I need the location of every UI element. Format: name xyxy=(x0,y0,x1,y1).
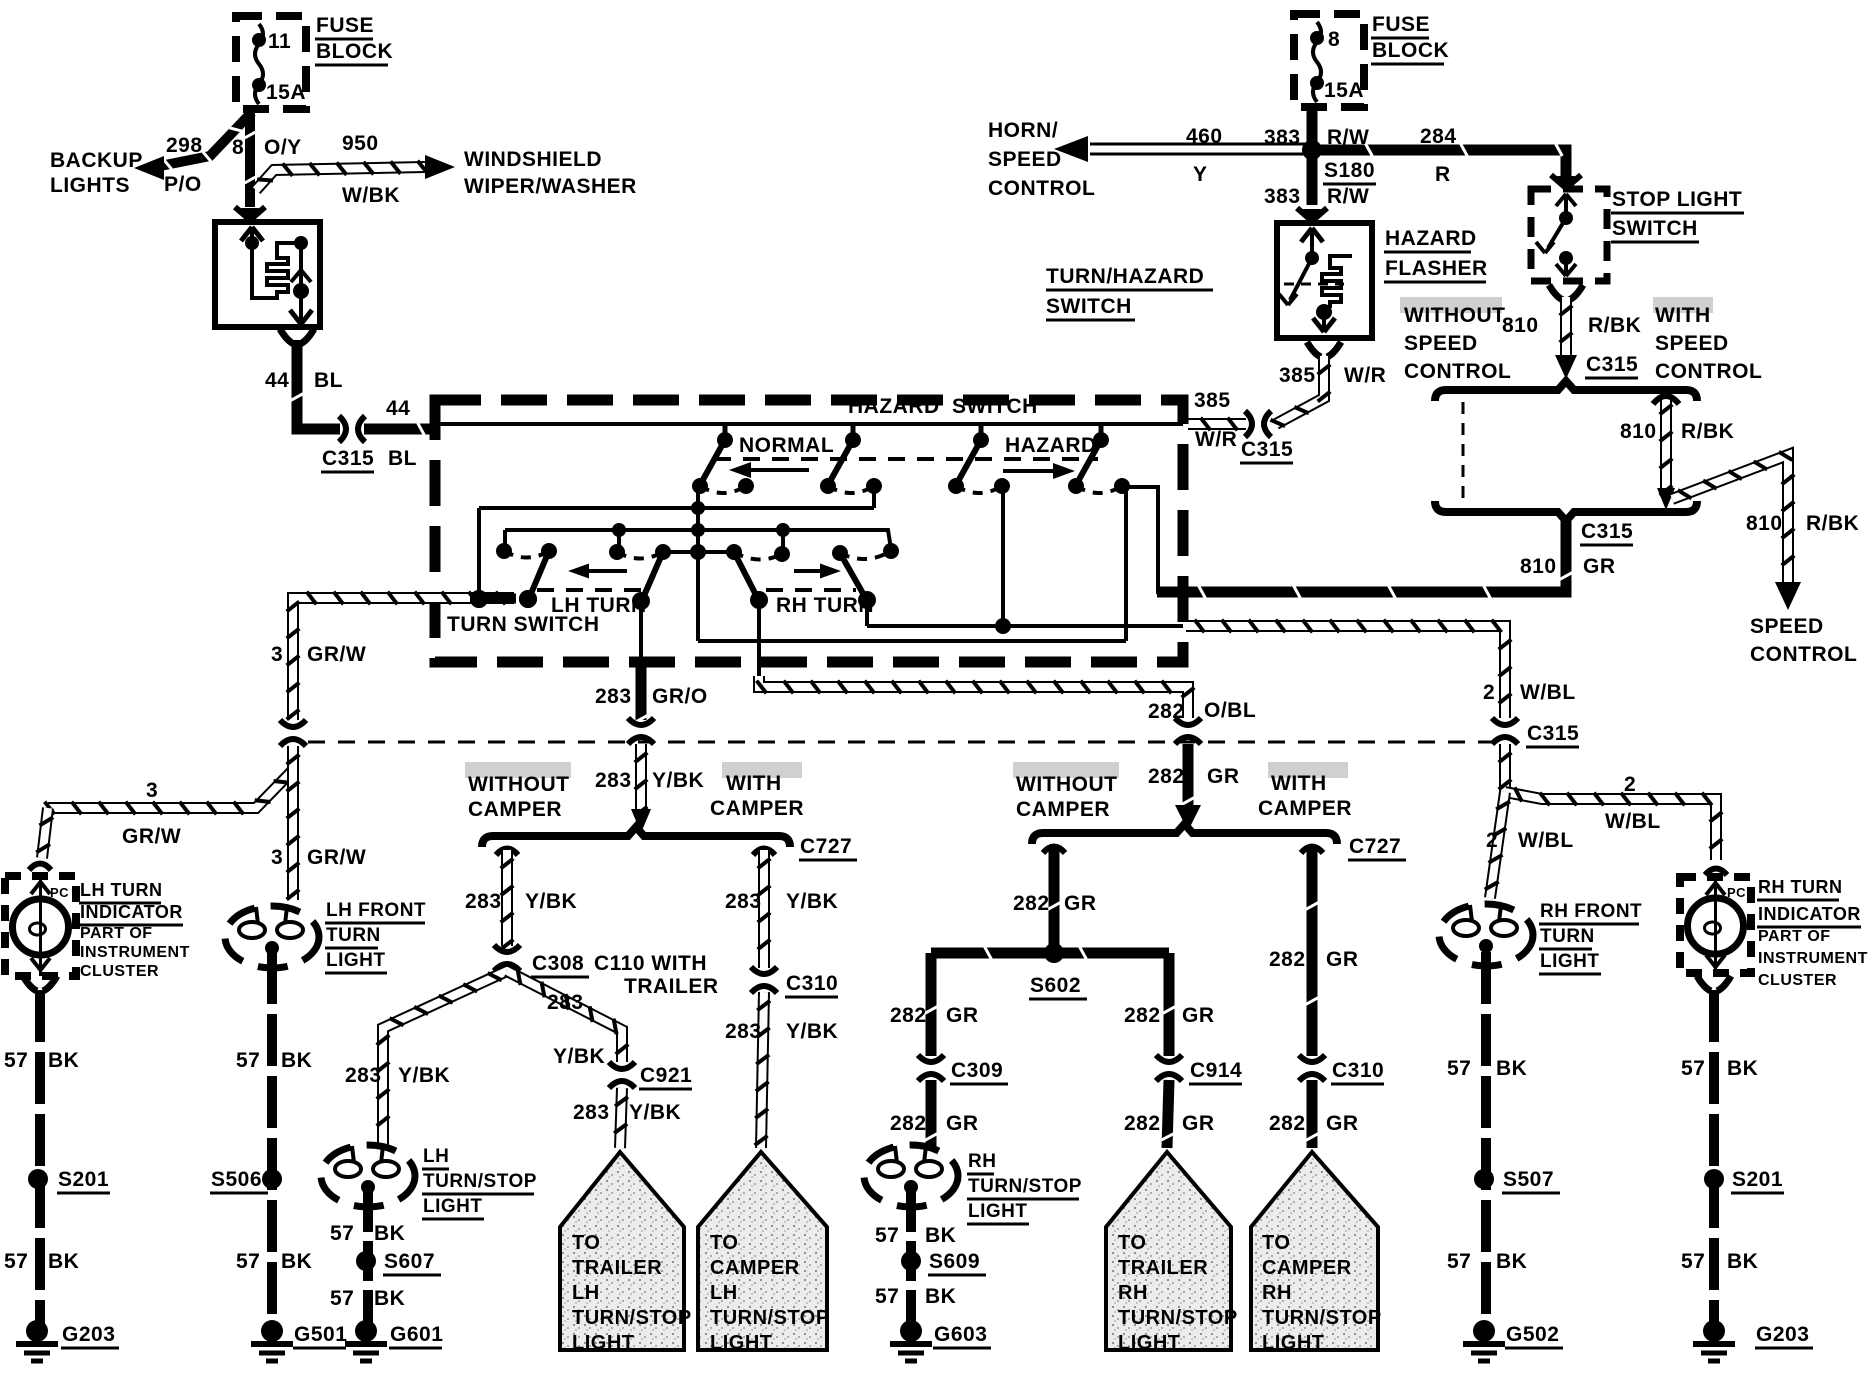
wire 282 GR to trailer RH xyxy=(1167,1080,1169,1148)
dashed throw line (normal/hazard) xyxy=(714,457,1098,461)
wire 282 inside box xyxy=(757,600,761,676)
svg-text:TO: TO xyxy=(572,1232,600,1254)
svg-text:57: 57 xyxy=(875,1224,899,1247)
svg-text:TRAILER: TRAILER xyxy=(572,1257,662,1279)
svg-text:BK: BK xyxy=(374,1287,405,1310)
svg-text:C110 WITH: C110 WITH xyxy=(594,952,707,975)
svg-text:TRAILER: TRAILER xyxy=(624,975,719,998)
hazard contact 1 xyxy=(979,424,984,440)
stop light switch arm xyxy=(1548,218,1566,248)
hazard flasher internal lead xyxy=(1310,228,1314,256)
svg-text:S602: S602 xyxy=(1030,974,1081,997)
svg-text:FUSE: FUSE xyxy=(316,14,374,37)
normal contact 1 xyxy=(723,424,728,440)
wire 283 inside box xyxy=(639,601,643,662)
wire 3 GR/W to LH front turn light xyxy=(287,746,299,900)
wire 950 W/BK to windshield wiper xyxy=(256,167,425,190)
wire 282 GR to camper RH xyxy=(1307,1080,1318,1148)
svg-text:CAMPER: CAMPER xyxy=(1016,798,1110,821)
hazard flasher arm xyxy=(1290,258,1312,300)
wire 44 BL C315 to switch box xyxy=(364,424,437,435)
svg-text:385: 385 xyxy=(1279,364,1316,387)
svg-text:CONTROL: CONTROL xyxy=(988,177,1095,200)
svg-text:15A: 15A xyxy=(266,81,306,104)
flasher outlet arrowhead xyxy=(290,310,301,324)
svg-text:LH TURN: LH TURN xyxy=(80,880,163,900)
svg-text:PC: PC xyxy=(50,885,69,900)
RH front turn light lamp xyxy=(1439,904,1533,966)
svg-text:GR: GR xyxy=(946,1112,979,1135)
svg-text:TURN: TURN xyxy=(326,925,381,946)
svg-text:HAZARD: HAZARD xyxy=(1005,434,1097,457)
connector brace C727 (282) xyxy=(1032,824,1337,844)
connector C310 (282) xyxy=(1299,1055,1325,1062)
svg-text:CAMPER: CAMPER xyxy=(1258,797,1352,820)
svg-text:C914: C914 xyxy=(1190,1059,1242,1082)
connector brace C315 lower xyxy=(1435,501,1697,521)
svg-text:HAZARD: HAZARD xyxy=(1385,227,1477,250)
svg-text:LIGHT: LIGHT xyxy=(710,1332,773,1354)
svg-text:WITHOUT: WITHOUT xyxy=(1016,773,1117,796)
svg-text:BK: BK xyxy=(374,1222,405,1245)
svg-text:44: 44 xyxy=(265,369,289,392)
svg-text:W/R: W/R xyxy=(1195,428,1237,451)
destination TO TRAILER RH TURN/STOP LIGHT xyxy=(1106,1152,1231,1350)
svg-text:57: 57 xyxy=(236,1049,260,1072)
svg-text:HORN/: HORN/ xyxy=(988,119,1058,142)
connector brace C727 (283) xyxy=(482,827,790,847)
svg-text:810: 810 xyxy=(1520,555,1557,578)
arrow hazard (right) xyxy=(1003,469,1058,473)
svg-text:W/BK: W/BK xyxy=(342,184,400,207)
svg-text:LIGHT: LIGHT xyxy=(968,1201,1028,1222)
arrow normal (left) xyxy=(744,468,809,472)
splice S609 xyxy=(901,1251,921,1271)
svg-text:LH: LH xyxy=(572,1282,600,1304)
svg-text:2: 2 xyxy=(1483,681,1495,704)
splice S507 xyxy=(1474,1169,1494,1189)
svg-text:PC: PC xyxy=(1727,885,1746,900)
svg-text:LIGHT: LIGHT xyxy=(572,1332,635,1354)
entry arrow into turn signal flasher xyxy=(241,208,259,222)
svg-text:SPEED: SPEED xyxy=(1404,332,1478,355)
svg-text:282: 282 xyxy=(1013,892,1050,915)
svg-text:WITHOUT: WITHOUT xyxy=(468,773,569,796)
svg-text:282: 282 xyxy=(1269,948,1306,971)
turn switch output stub overlay xyxy=(470,594,516,603)
destination TO CAMPER RH TURN/STOP LIGHT xyxy=(1251,1152,1378,1350)
splice S506 xyxy=(262,1169,282,1189)
svg-text:RH: RH xyxy=(968,1151,996,1172)
cap at C727 right branch xyxy=(753,849,775,856)
wire to 2 W/BL exit xyxy=(867,624,1183,628)
splice S180 xyxy=(1302,140,1322,160)
svg-text:C727: C727 xyxy=(800,835,852,858)
connector C310 (283) xyxy=(751,967,777,974)
cap at C727 left branch xyxy=(496,849,518,856)
svg-text:O/BL: O/BL xyxy=(1204,699,1256,722)
wire 810 R/BK switch to C315 xyxy=(1560,297,1572,356)
svg-text:TURN/STOP: TURN/STOP xyxy=(1118,1307,1238,1329)
flasher contact lead xyxy=(299,243,303,324)
splice S201 (RH) xyxy=(1704,1169,1724,1189)
wire 282 GR to C914 xyxy=(1164,953,1175,1056)
svg-text:R: R xyxy=(1435,163,1451,186)
svg-text:TURN/STOP: TURN/STOP xyxy=(968,1176,1082,1197)
svg-text:CAMPER: CAMPER xyxy=(710,797,804,820)
svg-text:P/O: P/O xyxy=(164,173,202,196)
svg-text:W/BL: W/BL xyxy=(1605,810,1661,833)
svg-text:C308: C308 xyxy=(532,952,584,975)
svg-text:57: 57 xyxy=(875,1285,899,1308)
svg-text:FLASHER: FLASHER xyxy=(1385,257,1488,280)
svg-text:TURN/STOP: TURN/STOP xyxy=(572,1307,692,1329)
svg-text:282: 282 xyxy=(1124,1112,1161,1135)
svg-text:CAMPER: CAMPER xyxy=(468,798,562,821)
ground G203 (RH) xyxy=(1703,1320,1725,1342)
rail 1 xyxy=(479,506,874,510)
wire 385 W/R hazard flasher down xyxy=(1276,356,1324,424)
LH turn/stop light lamp xyxy=(321,1145,415,1207)
dashed connector body line xyxy=(1462,402,1465,503)
svg-text:SPEED: SPEED xyxy=(988,148,1062,171)
svg-text:BL: BL xyxy=(388,447,417,470)
wire 57 BK LH front to ground xyxy=(267,952,277,1326)
splice S602 xyxy=(1044,943,1064,963)
svg-text:PART OF: PART OF xyxy=(80,925,153,942)
svg-text:C315: C315 xyxy=(1241,438,1293,461)
arrow RH (right) xyxy=(794,569,827,573)
svg-text:BK: BK xyxy=(1727,1057,1758,1080)
wire 2 W/BL from box to C315 xyxy=(1186,626,1505,718)
wire 283 Y/BK with camper xyxy=(758,850,770,968)
RH turn indicator lamp xyxy=(1680,877,1751,973)
svg-text:LIGHTS: LIGHTS xyxy=(50,174,130,197)
svg-text:WINDSHIELD: WINDSHIELD xyxy=(464,148,602,171)
svg-text:RH: RH xyxy=(1118,1282,1148,1304)
wire 283 Y/BK to trailer LH xyxy=(620,1088,622,1148)
svg-text:TURN/STOP: TURN/STOP xyxy=(423,1171,537,1192)
svg-text:W/BL: W/BL xyxy=(1518,829,1574,852)
connector C309 xyxy=(918,1055,944,1062)
wire 283 Y/BK xyxy=(635,744,647,812)
RH turn/stop light lamp xyxy=(864,1145,958,1207)
svg-text:Y/BK: Y/BK xyxy=(553,1045,605,1068)
cross wire lower xyxy=(698,639,1126,643)
wire 8 O/Y fuse to flasher xyxy=(245,108,255,207)
wire 298 P/O to backup lights xyxy=(160,112,252,166)
connector on 283 xyxy=(628,718,654,725)
stub to RH turn pivot xyxy=(781,530,785,552)
hazard flasher box xyxy=(1277,223,1372,338)
connector C315 (385 W/R) xyxy=(1245,411,1252,437)
fuse block F1 (dashed box, fuse 11 / 15A) xyxy=(236,16,306,109)
RH turn switch contact (output) xyxy=(726,544,742,560)
destination TO TRAILER LH TURN/STOP LIGHT xyxy=(560,1152,684,1350)
svg-text:383: 383 xyxy=(1264,126,1301,149)
svg-text:INDICATOR: INDICATOR xyxy=(1758,904,1861,924)
svg-text:GR: GR xyxy=(1064,892,1097,915)
svg-text:283: 283 xyxy=(547,991,584,1014)
flasher internal lead xyxy=(252,227,275,298)
svg-text:2: 2 xyxy=(1624,773,1636,796)
svg-text:RH TURN: RH TURN xyxy=(1758,877,1843,897)
connector C315 (2 W/BL) xyxy=(1492,718,1518,725)
svg-text:G601: G601 xyxy=(390,1323,443,1346)
svg-text:GR: GR xyxy=(1326,1112,1359,1135)
svg-text:INSTRUMENT: INSTRUMENT xyxy=(1758,950,1868,967)
svg-text:GR/O: GR/O xyxy=(652,685,708,708)
splice S201 (LH) xyxy=(28,1169,48,1189)
wire RH rest contact down xyxy=(865,601,869,626)
svg-text:284: 284 xyxy=(1420,125,1457,148)
wire hazard contact 2 down xyxy=(1124,487,1128,641)
svg-text:57: 57 xyxy=(4,1049,28,1072)
svg-text:SWITCH: SWITCH xyxy=(952,395,1038,418)
svg-text:Y/BK: Y/BK xyxy=(525,890,577,913)
svg-text:C921: C921 xyxy=(640,1064,692,1087)
svg-text:CONTROL: CONTROL xyxy=(1404,360,1511,383)
wire 810 R/BK to speed control xyxy=(1672,455,1788,585)
wire 2 W/BL to RH front turn light xyxy=(1490,792,1505,898)
svg-text:BK: BK xyxy=(281,1250,312,1273)
svg-text:283: 283 xyxy=(573,1101,610,1124)
hazard flasher outlet arrowhead xyxy=(1313,318,1324,332)
svg-text:57: 57 xyxy=(330,1287,354,1310)
RH turn switch contact (right) xyxy=(832,545,848,561)
svg-text:810: 810 xyxy=(1620,420,1657,443)
svg-text:3: 3 xyxy=(146,779,158,802)
svg-text:CLUSTER: CLUSTER xyxy=(1758,972,1837,989)
svg-text:GR/W: GR/W xyxy=(122,825,181,848)
svg-text:44: 44 xyxy=(386,397,410,420)
svg-text:R/BK: R/BK xyxy=(1681,420,1734,443)
svg-text:Y/BK: Y/BK xyxy=(786,1020,838,1043)
connector C921 xyxy=(609,1062,635,1069)
svg-text:57: 57 xyxy=(1447,1250,1471,1273)
wire 57 BK LH turn/stop to ground xyxy=(363,1192,373,1326)
wire normal contact down through rails xyxy=(696,486,700,641)
wire 2 W/BL below C315 xyxy=(1499,744,1511,792)
dashed throw line RH xyxy=(766,588,856,592)
svg-text:LIGHT: LIGHT xyxy=(1262,1332,1325,1354)
svg-text:GR/W: GR/W xyxy=(307,846,366,869)
svg-text:BK: BK xyxy=(281,1049,312,1072)
rail 1 left drop xyxy=(477,508,481,598)
connector on 282 xyxy=(1175,718,1201,725)
svg-text:57: 57 xyxy=(1681,1057,1705,1080)
svg-text:INDICATOR: INDICATOR xyxy=(80,902,183,922)
svg-text:57: 57 xyxy=(236,1250,260,1273)
svg-text:S201: S201 xyxy=(58,1168,109,1191)
hazard flasher inlet arrowhead xyxy=(1301,228,1312,242)
ground G603 xyxy=(900,1320,922,1342)
wire 284 R to stop light switch xyxy=(1312,150,1566,180)
svg-text:BK: BK xyxy=(1727,1250,1758,1273)
svg-text:SPEED: SPEED xyxy=(1655,332,1729,355)
svg-text:C310: C310 xyxy=(786,972,838,995)
wire 383 R/W S180 to hazard flasher xyxy=(1307,156,1318,205)
svg-text:STOP LIGHT: STOP LIGHT xyxy=(1612,188,1742,211)
svg-text:R/W: R/W xyxy=(1327,185,1369,208)
svg-text:CLUSTER: CLUSTER xyxy=(80,963,159,980)
wire hazard contact down xyxy=(1001,486,1005,626)
svg-text:R/BK: R/BK xyxy=(1806,512,1859,535)
svg-text:HAZARD: HAZARD xyxy=(848,395,940,418)
wire 283 Y/BK to camper LH xyxy=(761,992,764,1148)
svg-text:GR: GR xyxy=(1326,948,1359,971)
svg-text:TURN/HAZARD: TURN/HAZARD xyxy=(1046,265,1204,288)
svg-text:G203: G203 xyxy=(62,1323,115,1346)
turn signal flasher box xyxy=(215,222,320,327)
svg-text:BK: BK xyxy=(48,1049,79,1072)
svg-text:8: 8 xyxy=(232,136,244,159)
svg-text:57: 57 xyxy=(1681,1250,1705,1273)
svg-text:Y/BK: Y/BK xyxy=(629,1101,681,1124)
connector C315 (44 BL) xyxy=(339,416,346,442)
svg-text:8: 8 xyxy=(1328,28,1340,51)
connector C914 xyxy=(1156,1055,1182,1062)
svg-text:G501: G501 xyxy=(294,1323,347,1346)
svg-text:C315: C315 xyxy=(1586,353,1638,376)
wire 283 Y/BK to C921 xyxy=(507,971,622,1062)
svg-text:SPEED: SPEED xyxy=(1750,615,1824,638)
arrow LH (left) xyxy=(583,569,627,573)
svg-text:CONTROL: CONTROL xyxy=(1655,360,1762,383)
rail 1 right rise xyxy=(872,488,876,508)
svg-text:RH: RH xyxy=(1262,1282,1292,1304)
wire 283 GR/O xyxy=(636,662,647,720)
wire 383 R/W fuse to S180 xyxy=(1307,107,1318,144)
center pivot xyxy=(690,544,706,560)
wire cap above RH turn indicator xyxy=(1705,869,1727,876)
ground G501 xyxy=(261,1320,283,1342)
svg-text:S607: S607 xyxy=(384,1250,435,1273)
svg-text:LIGHT: LIGHT xyxy=(326,950,386,971)
svg-text:283: 283 xyxy=(345,1064,382,1087)
svg-text:TURN SWITCH: TURN SWITCH xyxy=(447,613,599,636)
svg-text:GR/W: GR/W xyxy=(307,643,366,666)
turn/hazard switch dashed box xyxy=(435,400,1183,662)
svg-text:C315: C315 xyxy=(1581,520,1633,543)
destination TO CAMPER LH TURN/STOP LIGHT xyxy=(698,1152,827,1350)
rail 2 xyxy=(505,530,891,549)
svg-text:283: 283 xyxy=(465,890,502,913)
svg-text:57: 57 xyxy=(330,1222,354,1245)
wire 282 GR to C309 xyxy=(926,953,937,1056)
svg-text:GR: GR xyxy=(1207,765,1240,788)
svg-text:283: 283 xyxy=(725,1020,762,1043)
svg-text:S507: S507 xyxy=(1503,1168,1554,1191)
svg-text:C315: C315 xyxy=(322,447,374,470)
wire 283 Y/BK without camper xyxy=(501,850,513,946)
svg-text:385: 385 xyxy=(1194,389,1231,412)
wire 57 BK RH indicator to ground xyxy=(1709,990,1719,1326)
connector on 3 GR/W xyxy=(280,720,306,727)
svg-text:BK: BK xyxy=(1496,1057,1527,1080)
flasher heater element xyxy=(267,243,299,298)
cap at C727 left branch (282) xyxy=(1043,847,1065,854)
cap at C727 right branch (282) xyxy=(1301,847,1323,854)
svg-text:282: 282 xyxy=(890,1004,927,1027)
svg-text:WITH: WITH xyxy=(1271,772,1327,795)
svg-text:C727: C727 xyxy=(1349,835,1401,858)
svg-text:CONTROL: CONTROL xyxy=(1750,643,1857,666)
svg-text:950: 950 xyxy=(342,132,379,155)
svg-text:TO: TO xyxy=(1262,1232,1290,1254)
svg-text:298: 298 xyxy=(166,134,203,157)
svg-text:15A: 15A xyxy=(1324,79,1364,102)
LH turn switch contact (output) xyxy=(609,544,625,560)
svg-text:INSTRUMENT: INSTRUMENT xyxy=(80,944,190,961)
svg-text:S180: S180 xyxy=(1324,159,1375,182)
entry arrow into hazard flasher xyxy=(1303,209,1321,223)
svg-text:Y: Y xyxy=(1193,163,1208,186)
svg-text:S609: S609 xyxy=(929,1250,980,1273)
svg-text:TO: TO xyxy=(710,1232,738,1254)
exit wings below LH turn indicator xyxy=(23,976,37,991)
connector brace C315 upper xyxy=(1435,381,1697,401)
svg-text:O/Y: O/Y xyxy=(264,136,302,159)
svg-text:RH TURN: RH TURN xyxy=(776,594,874,617)
svg-text:C315: C315 xyxy=(1527,722,1579,745)
rail 2 left drop xyxy=(503,530,507,551)
svg-text:WITHOUT: WITHOUT xyxy=(1404,304,1505,327)
svg-text:BK: BK xyxy=(48,1250,79,1273)
wire 810 R/BK inside connector xyxy=(1660,396,1672,496)
svg-text:57: 57 xyxy=(4,1250,28,1273)
svg-text:2: 2 xyxy=(1486,829,1498,852)
svg-text:C309: C309 xyxy=(951,1059,1003,1082)
wire 57 BK RH turn/stop to ground xyxy=(906,1192,916,1326)
svg-text:R/BK: R/BK xyxy=(1588,314,1641,337)
svg-text:G502: G502 xyxy=(1506,1323,1559,1346)
svg-text:11: 11 xyxy=(268,30,291,53)
svg-text:282: 282 xyxy=(1148,765,1185,788)
svg-text:LIGHT: LIGHT xyxy=(1540,951,1600,972)
dash body separation line xyxy=(308,741,1492,744)
wire 283 Y/BK to LH turn/stop light xyxy=(383,971,507,1146)
svg-text:WITH: WITH xyxy=(1655,304,1711,327)
splice S607 xyxy=(356,1251,376,1271)
svg-text:3: 3 xyxy=(271,846,283,869)
svg-text:282: 282 xyxy=(890,1112,927,1135)
svg-text:BK: BK xyxy=(925,1224,956,1247)
svg-text:CAMPER: CAMPER xyxy=(1262,1257,1352,1279)
hazard contact 2 xyxy=(1099,424,1104,440)
exit wings below stop light switch xyxy=(1549,285,1563,300)
svg-text:S506: S506 xyxy=(211,1168,262,1191)
svg-text:283: 283 xyxy=(725,890,762,913)
svg-text:TURN/STOP: TURN/STOP xyxy=(710,1307,830,1329)
wire 282 GR S602 bus xyxy=(931,948,1169,959)
svg-text:LIGHT: LIGHT xyxy=(423,1196,483,1217)
exit wings below flasher xyxy=(280,329,294,344)
svg-text:WIPER/WASHER: WIPER/WASHER xyxy=(464,175,637,198)
wire 57 BK LH indicator to ground xyxy=(35,990,45,1326)
wire 282 O/BL xyxy=(759,676,1188,718)
svg-text:BL: BL xyxy=(314,369,343,392)
wire 3 GR/W to LH turn indicator xyxy=(48,746,293,808)
flasher inlet arrowhead xyxy=(241,227,252,241)
svg-text:BK: BK xyxy=(1496,1250,1527,1273)
wire 810 GR to turn/hazard switch xyxy=(1157,519,1566,592)
wire 44 BL flasher to C315 xyxy=(297,340,340,429)
exit wings below hazard flasher xyxy=(1307,342,1321,357)
svg-text:282: 282 xyxy=(1124,1004,1161,1027)
ground G601 xyxy=(355,1320,377,1342)
wire 2 W/BL to RH turn indicator xyxy=(1505,792,1716,860)
